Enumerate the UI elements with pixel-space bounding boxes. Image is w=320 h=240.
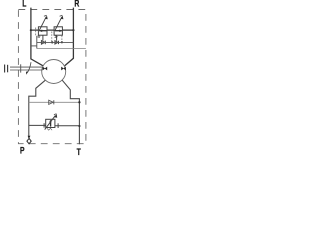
svg-text:T: T — [77, 147, 81, 157]
svg-text:L: L — [22, 0, 26, 9]
svg-text:P: P — [20, 145, 25, 155]
svg-text:R: R — [74, 0, 79, 9]
